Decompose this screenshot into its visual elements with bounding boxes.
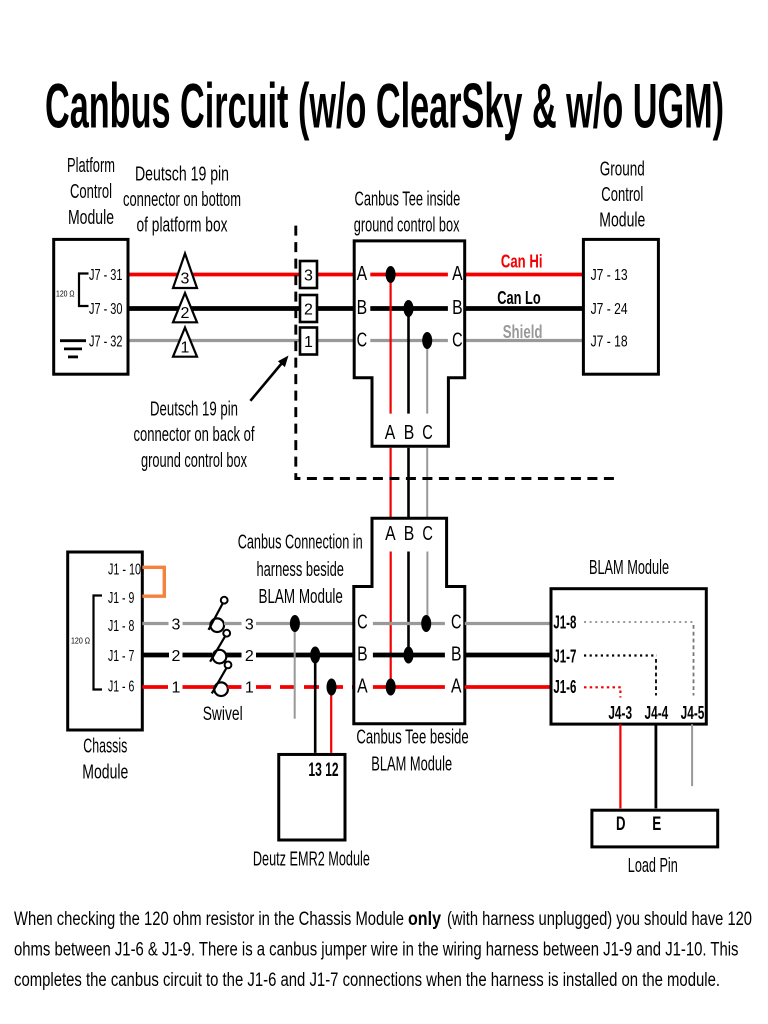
- svg-text:2: 2: [172, 648, 181, 665]
- wire: black to swivel 2: [183, 653, 213, 658]
- svg-text:J1 - 7: J1 - 7: [108, 648, 134, 665]
- svg-text:BLAM Module: BLAM Module: [259, 586, 343, 608]
- svg-text:2: 2: [304, 302, 313, 319]
- svg-text:only: only: [408, 909, 441, 930]
- svg-text:Can Lo: Can Lo: [497, 288, 541, 308]
- label: Deutsch 19 pin connector on back of ground control box: [134, 399, 255, 472]
- wire: gray inside Tee 1 row C: [370, 339, 448, 342]
- module: Ground Control Module box: [583, 239, 658, 374]
- wire: gray 3 from chassis: [142, 622, 168, 625]
- svg-text:J1-6: J1-6: [553, 677, 576, 697]
- label: Deutsch 19 pin connector on bottom of platform box: [123, 164, 241, 237]
- wire: red Tee 2 to BLAM: [465, 685, 551, 689]
- dashed boundary line of ground control box: [296, 226, 620, 479]
- resistor 120 ohm bracket in PCM: [79, 274, 89, 307]
- svg-text:12: 12: [325, 760, 338, 781]
- connector square pin 1: [300, 328, 317, 355]
- wire: gray inside Tee 2 row C: [373, 622, 445, 625]
- svg-text:BLAM Module: BLAM Module: [371, 753, 452, 775]
- svg-text:Swivel: Swivel: [203, 704, 243, 725]
- svg-text:J7 - 31: J7 - 31: [89, 267, 123, 284]
- svg-text:Canbus Tee beside: Canbus Tee beside: [356, 727, 468, 749]
- label: Platform Control Module: [67, 155, 115, 229]
- svg-text:1: 1: [304, 334, 313, 351]
- svg-text:B: B: [451, 644, 462, 666]
- note paragraph line 1: [14, 909, 752, 991]
- connector triangle pin 2: [173, 293, 197, 322]
- svg-text:connector on back of: connector on back of: [134, 424, 255, 446]
- wire: black inside Tee 1 row B: [370, 306, 448, 311]
- svg-text:3: 3: [181, 271, 190, 288]
- connector triangle pin 3: [173, 254, 197, 289]
- module: Load Pin box: [592, 810, 718, 847]
- wire: black vertical drop in Tee 1: [407, 309, 410, 414]
- svg-text:J7 - 18: J7 - 18: [591, 334, 628, 351]
- pin labels Tee 2 right C B A: [451, 612, 462, 698]
- label: Canbus Tee inside ground control box: [354, 188, 461, 236]
- pin labels Tee 2 top A B C: [385, 523, 433, 545]
- svg-text:Platform: Platform: [67, 155, 115, 177]
- svg-text:A: A: [357, 676, 368, 698]
- wire: black dotted J1-7 to J4-4 horizontal: [584, 654, 657, 656]
- wire: gray vertical drop in Tee 1: [426, 341, 428, 414]
- svg-text:J4-5: J4-5: [681, 703, 705, 723]
- svg-text:3: 3: [172, 616, 181, 633]
- module: Platform Control Module box: [54, 239, 128, 374]
- wire: red J4-3 to Load Pin D: [619, 724, 621, 808]
- wire: black drop to Deutz pin 13: [314, 655, 317, 753]
- svg-text:Canbus Tee inside: Canbus Tee inside: [355, 188, 461, 210]
- swivel connector 3: [209, 597, 228, 632]
- svg-text:J1 - 8: J1 - 8: [108, 618, 134, 635]
- svg-text:B: B: [452, 297, 463, 319]
- wire labels 3 2 1 right of swivel: [245, 616, 254, 696]
- svg-text:completes the canbus circuit t: completes the canbus circuit to the J1-6…: [14, 970, 720, 991]
- node: junction dot black harness: [310, 647, 320, 664]
- svg-text:Deutz EMR2 Module: Deutz EMR2 Module: [253, 849, 370, 871]
- svg-text:J4-3: J4-3: [608, 703, 632, 723]
- svg-text:B: B: [404, 422, 415, 444]
- svg-text:2: 2: [181, 305, 190, 322]
- wire: black vertical Tee1 to Tee2: [407, 448, 410, 519]
- svg-text:J1-8: J1-8: [553, 613, 576, 633]
- resistor 120 ohm bracket in Chassis Module: [94, 596, 103, 690]
- svg-text:B: B: [357, 644, 368, 666]
- wire: gray 3 to Tee 2: [256, 622, 354, 625]
- arrow pointing to dashed connector line: [250, 356, 288, 401]
- node: junction dot B Tee 1: [404, 300, 414, 317]
- pin labels Tee 1 right A B C: [452, 263, 463, 352]
- wire: Can Lo black, Tee 1 to GCM: [465, 306, 584, 311]
- svg-text:Load Pin: Load Pin: [628, 855, 678, 877]
- label: Canbus Tee beside BLAM Module: [356, 727, 468, 776]
- wire: black inside Tee 2 row B: [373, 653, 445, 658]
- wire labels 3 2 1 left of swivel: [172, 616, 181, 696]
- wire: black dashed J4-4 vertical: [655, 659, 657, 696]
- svg-text:Ground: Ground: [600, 159, 645, 181]
- pin labels Tee 1 left A B C: [357, 263, 368, 352]
- connector square pin 2: [300, 295, 317, 322]
- wire: black vertical in Tee 2: [407, 552, 410, 656]
- svg-text:D: D: [616, 814, 626, 835]
- node: junction dot C Tee 1: [422, 332, 432, 349]
- wire: red after swivel 1: [228, 685, 242, 689]
- wire: red dotted J1-6: [584, 687, 621, 697]
- wire: red inside Tee 2 row A: [373, 685, 445, 689]
- svg-text:ohms between J1-6 & J1-9. Ther: ohms between J1-6 & J1-9. There is a can…: [14, 940, 739, 961]
- svg-text:120 Ω: 120 Ω: [56, 289, 75, 299]
- wire: red 1 dashed to Tee 2: [256, 685, 354, 689]
- svg-text:J7 - 30: J7 - 30: [89, 301, 123, 318]
- svg-text:E: E: [652, 814, 661, 835]
- wire: black 2 to Tee 2: [256, 653, 354, 658]
- svg-text:13: 13: [308, 760, 322, 781]
- svg-text:1: 1: [245, 680, 254, 697]
- svg-text:A: A: [357, 263, 368, 285]
- label: Ground Control Module: [599, 159, 645, 232]
- svg-text:harness beside: harness beside: [256, 559, 344, 581]
- svg-text:C: C: [422, 422, 433, 444]
- connector square pin 3: [300, 261, 317, 288]
- wire: red drop to Deutz pin 12: [330, 687, 332, 753]
- svg-text:Chassis: Chassis: [83, 736, 127, 758]
- wire: Can Hi red, PCM to Canbus Tee 1: [128, 273, 354, 277]
- svg-text:ground control box: ground control box: [354, 215, 460, 237]
- wire: gray stub from J4-5: [691, 724, 693, 786]
- wire: gray dotted J1-8 to J4-5 horizontal: [584, 621, 695, 623]
- label: Canbus Connection in harness beside BLAM Module: [238, 532, 363, 608]
- node: junction dot C Tee 2: [421, 615, 431, 632]
- svg-text:J7 - 24: J7 - 24: [591, 301, 628, 318]
- wire: black Tee 2 to BLAM: [465, 653, 551, 658]
- node: junction dot red harness: [327, 679, 337, 696]
- wire: gray dashed J4-5 vertical: [693, 625, 695, 696]
- wire: Can Lo black, PCM to Canbus Tee 1: [128, 306, 354, 311]
- wire: gray after swivel 3: [224, 622, 242, 625]
- wire: gray vertical in Tee 2: [426, 552, 428, 624]
- wire: gray stub drop: [294, 624, 296, 719]
- label: Chassis Module: [82, 736, 128, 784]
- wire: black J4-4 to Load Pin E: [655, 724, 658, 808]
- svg-text:J1 - 6: J1 - 6: [108, 678, 134, 695]
- svg-text:C: C: [357, 612, 368, 634]
- wire: black 2 from chassis: [142, 653, 169, 658]
- node: junction dot A Tee 1: [386, 266, 396, 283]
- wire: Can Hi red, Tee 1 to GCM: [465, 273, 584, 277]
- svg-text:C: C: [422, 523, 433, 545]
- svg-text:120 Ω: 120 Ω: [71, 636, 90, 646]
- svg-text:1: 1: [181, 340, 190, 357]
- svg-text:Control: Control: [70, 181, 112, 203]
- svg-text:J4-4: J4-4: [645, 703, 669, 723]
- wire: Shield gray, Tee 1 to GCM: [465, 339, 584, 342]
- module: Canbus Tee 2 body: [354, 518, 465, 723]
- swivel connector 1: [212, 662, 232, 697]
- wire: black after swivel 2: [226, 653, 242, 658]
- svg-text:A: A: [385, 523, 396, 545]
- svg-text:Deutsch 19 pin: Deutsch 19 pin: [135, 164, 229, 186]
- svg-text:Deutsch 19 pin: Deutsch 19 pin: [150, 399, 238, 421]
- svg-text:(with harness unplugged) you s: (with harness unplugged) you should have…: [447, 909, 752, 930]
- svg-text:J1-7: J1-7: [553, 647, 576, 667]
- svg-text:2: 2: [245, 648, 254, 665]
- svg-text:1: 1: [172, 680, 181, 697]
- svg-text:Canbus Circuit (w/o ClearSky &: Canbus Circuit (w/o ClearSky & w/o UGM): [45, 72, 724, 142]
- svg-text:ground control box: ground control box: [141, 450, 247, 472]
- svg-text:C: C: [357, 330, 368, 352]
- module: BLAM Module box: [551, 589, 706, 724]
- svg-text:C: C: [452, 330, 463, 352]
- svg-text:A: A: [452, 263, 463, 285]
- wire: red vertical in Tee 2: [390, 552, 392, 688]
- svg-text:3: 3: [245, 616, 254, 633]
- wire: red vertical Tee1 to Tee2: [390, 448, 392, 519]
- module: Deutz EMR2 Module box: [279, 754, 345, 840]
- wire: red inside Tee 1 row A: [370, 273, 448, 277]
- svg-text:J1 - 9: J1 - 9: [108, 590, 134, 607]
- svg-text:Control: Control: [601, 184, 643, 206]
- swivel connector 2: [210, 630, 230, 664]
- pin labels Tee 1 bottom A B C: [385, 422, 433, 444]
- svg-text:of platform box: of platform box: [137, 215, 228, 237]
- module: Chassis Module box: [68, 552, 143, 730]
- svg-text:C: C: [451, 612, 462, 634]
- node: junction dot gray harness: [290, 615, 300, 632]
- svg-text:J1 - 10: J1 - 10: [108, 562, 141, 579]
- svg-text:Can Hi: Can Hi: [501, 252, 543, 272]
- wire: gray to swivel 3: [183, 622, 211, 625]
- svg-text:connector on bottom: connector on bottom: [123, 189, 241, 211]
- pin labels Tee 2 left C B A: [357, 612, 368, 698]
- svg-text:Module: Module: [599, 210, 645, 232]
- svg-text:3: 3: [304, 268, 313, 285]
- svg-text:J7 - 32: J7 - 32: [89, 334, 123, 351]
- module: Canbus Tee 1 body: [354, 241, 465, 446]
- node: junction dot A Tee 2: [386, 679, 396, 696]
- svg-text:A: A: [451, 676, 462, 698]
- svg-text:B: B: [357, 297, 368, 319]
- svg-text:A: A: [385, 422, 396, 444]
- connector triangle pin 1: [173, 328, 197, 357]
- svg-text:Module: Module: [68, 207, 114, 229]
- svg-text:Shield: Shield: [503, 322, 543, 342]
- wire: Shield gray, PCM to Canbus Tee 1: [128, 339, 354, 342]
- svg-text:Canbus Connection in: Canbus Connection in: [238, 532, 363, 554]
- svg-text:B: B: [404, 523, 415, 545]
- wire: red vertical drop in Tee 1: [390, 275, 392, 414]
- svg-text:When checking the 120 ohm resi: When checking the 120 ohm resistor in th…: [14, 909, 404, 930]
- svg-text:J7 - 13: J7 - 13: [591, 267, 628, 284]
- svg-text:BLAM Module: BLAM Module: [589, 557, 669, 579]
- node: junction dot B Tee 2: [404, 647, 414, 664]
- wire: red to swivel 1: [183, 685, 215, 689]
- wire: gray vertical Tee1 to Tee2: [426, 448, 428, 519]
- jumper wire J1-10 to J1-9 orange: [142, 567, 164, 596]
- ground symbol in PCM: [60, 341, 86, 357]
- svg-text:Module: Module: [82, 762, 128, 784]
- wire: red 1 from chassis: [142, 685, 168, 689]
- wire: gray Tee 2 to BLAM: [465, 622, 551, 625]
